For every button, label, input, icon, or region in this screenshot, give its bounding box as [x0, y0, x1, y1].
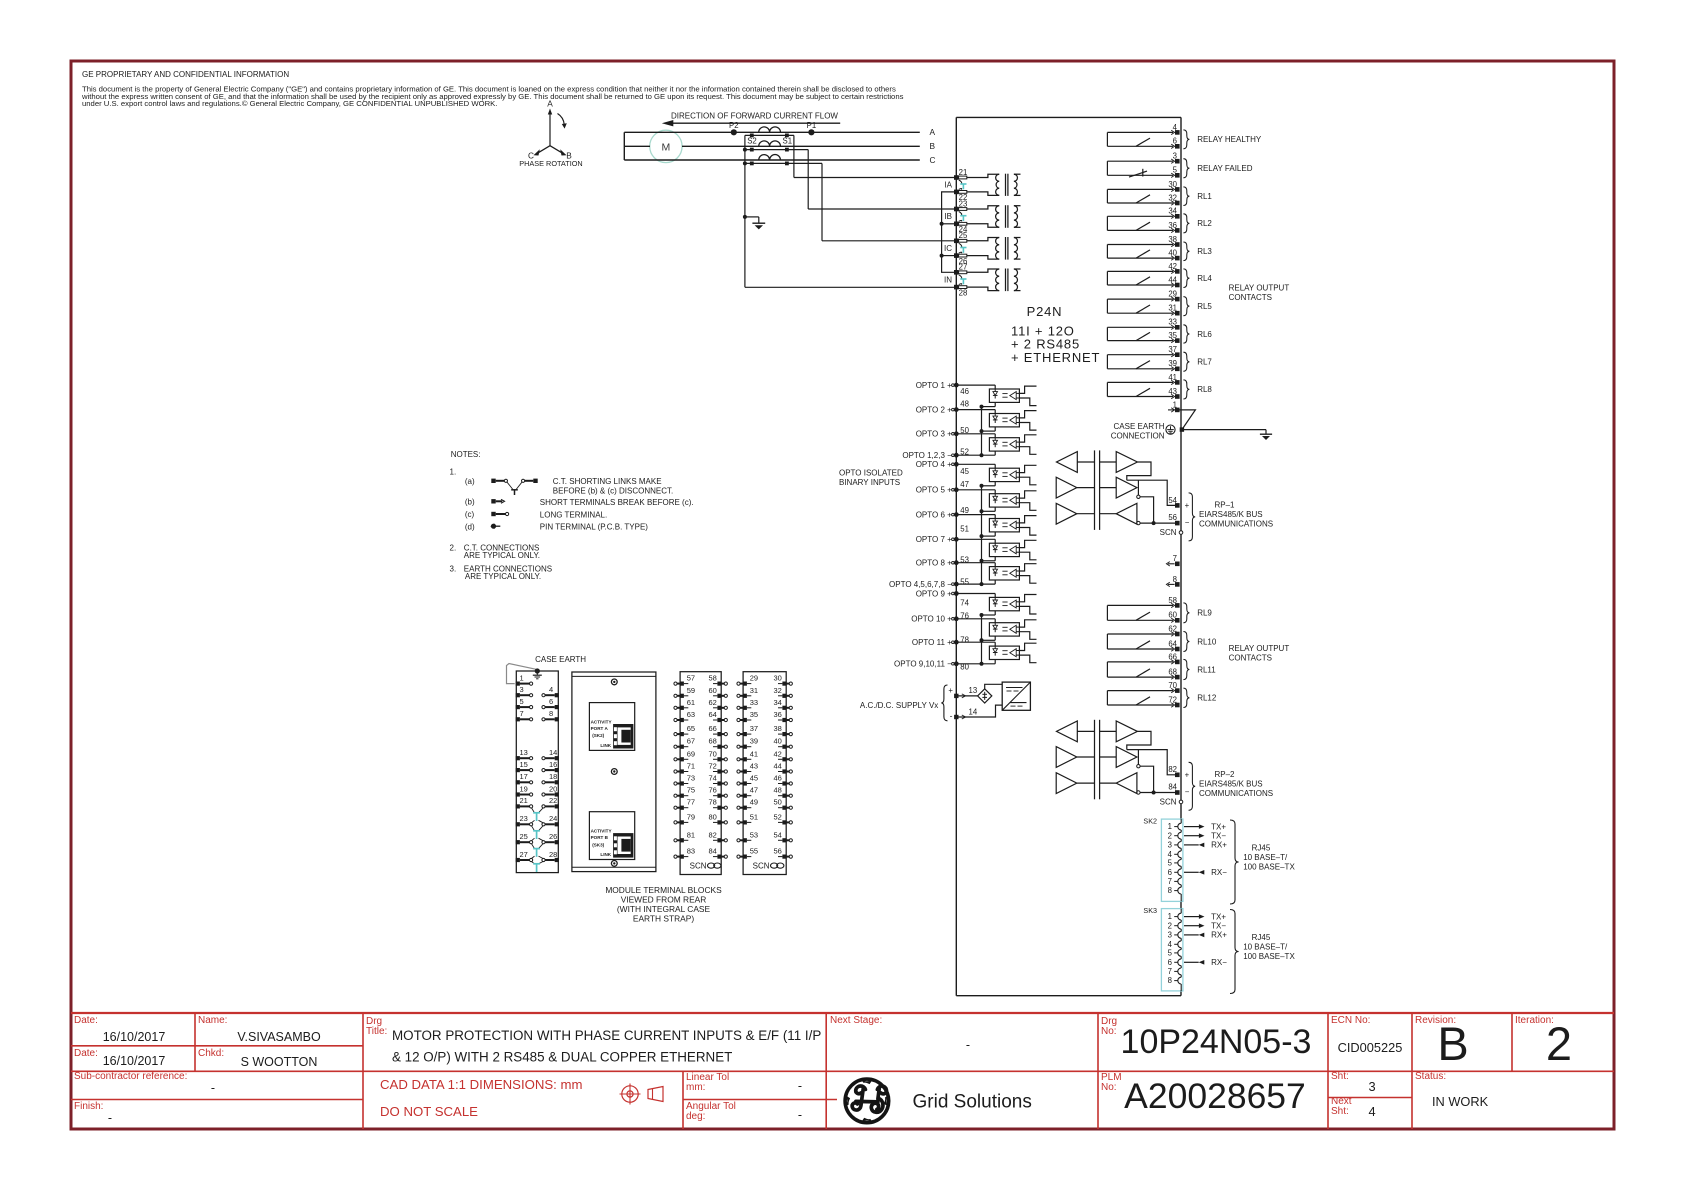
terminal 28 [954, 285, 959, 290]
svg-text:Date:: Date: [74, 1015, 98, 1026]
svg-text:68: 68 [709, 737, 717, 746]
svg-text:IB: IB [944, 212, 952, 221]
svg-text:Finish:: Finish: [74, 1101, 103, 1112]
bridge rectifier [978, 689, 992, 703]
wire opto 78 common stub [994, 660, 996, 664]
svg-text:22: 22 [549, 796, 557, 805]
svg-text:21: 21 [959, 168, 968, 177]
svg-text:RX−: RX− [1211, 958, 1227, 967]
svg-text:(d): (d) [465, 522, 475, 531]
wire opto common 80 [956, 663, 995, 665]
svg-text:63: 63 [687, 710, 695, 719]
wire opto common bus [981, 615, 983, 664]
svg-text:39: 39 [750, 737, 758, 746]
svg-text:Chkd:: Chkd: [198, 1048, 224, 1059]
svg-text:RL6: RL6 [1197, 330, 1212, 339]
buffer RP–2 receive left [1057, 721, 1078, 742]
svg-text:62: 62 [709, 698, 717, 707]
svg-text:A: A [930, 127, 936, 137]
ground CT star point [758, 217, 760, 223]
CT shorting link IN [959, 275, 962, 279]
svg-text:49: 49 [750, 798, 758, 807]
svg-text:B: B [1437, 1017, 1468, 1070]
opto-isolator OPTO 7 [989, 543, 1019, 556]
brace AC/DC supply [941, 685, 947, 721]
svg-text:OPTO 1,2,3 −: OPTO 1,2,3 − [902, 451, 952, 460]
SK3 pin 2 body line [1180, 920, 1182, 922]
svg-text:70: 70 [709, 749, 717, 758]
motor M [650, 130, 682, 162]
wire RP–2 to - terminal [1140, 792, 1175, 794]
projection symbol [622, 1086, 638, 1102]
svg-text:51: 51 [750, 812, 758, 821]
svg-text:Date:: Date: [74, 1048, 98, 1059]
relay contact RL2 [1107, 215, 1173, 217]
title block grid [71, 1012, 1614, 1014]
svg-text:ECN No:: ECN No: [1331, 1015, 1370, 1026]
wire opto 51 common stub [994, 557, 996, 561]
brace RJ45 SK3 [1230, 910, 1239, 994]
svg-text:IN WORK: IN WORK [1432, 1094, 1489, 1109]
svg-text:IA: IA [944, 180, 952, 189]
buffer RP–2 receiver right [1116, 773, 1137, 794]
junction CT common earth tap [743, 215, 747, 219]
svg-text:46: 46 [774, 774, 782, 783]
svg-text:EIARS485/K BUS: EIARS485/K BUS [1199, 510, 1263, 519]
svg-text:3: 3 [1168, 841, 1172, 850]
svg-text:35: 35 [750, 710, 758, 719]
wire CT A S1 to relay [793, 135, 795, 177]
svg-text:37: 37 [750, 724, 758, 733]
relay contact RL5 [1107, 298, 1173, 300]
CT shorting link IA [959, 180, 962, 184]
svg-text:21: 21 [520, 796, 528, 805]
svg-text:64: 64 [709, 710, 717, 719]
svg-text:C: C [930, 155, 936, 165]
svg-text:DO NOT SCALE: DO NOT SCALE [380, 1104, 478, 1119]
svg-text:16/10/2017: 16/10/2017 [103, 1030, 166, 1044]
svg-text:No:: No: [1101, 1026, 1117, 1037]
relay contact RL8 [1107, 381, 1173, 383]
svg-text:55: 55 [750, 847, 758, 856]
wire opto 50 outputs [1019, 435, 1036, 442]
terminal 26 [954, 253, 959, 258]
ethernet port PORT A [589, 703, 634, 751]
svg-text:Sub-contractor reference:: Sub-contractor reference: [74, 1071, 187, 1082]
wire opto 46 common stub [994, 402, 996, 406]
svg-text:7: 7 [1168, 877, 1172, 886]
svg-text:-: - [211, 1081, 215, 1095]
brace RL4 [1183, 269, 1189, 288]
svg-text:RX+: RX+ [1211, 841, 1227, 850]
svg-text:59: 59 [687, 686, 695, 695]
svg-text:24: 24 [549, 814, 557, 823]
buffer RP–1 receive left [1057, 452, 1078, 473]
SK2 pin 7 body line [1180, 876, 1182, 878]
terminal block 4 body [743, 672, 786, 875]
svg-text:74: 74 [960, 598, 969, 607]
svg-text:IC: IC [944, 244, 952, 253]
opto-isolator OPTO 8 [989, 567, 1019, 580]
wire opto 53 outputs [1019, 564, 1036, 571]
svg-text:OPTO 3 +: OPTO 3 + [916, 430, 952, 439]
svg-text:10 BASE–T/: 10 BASE–T/ [1243, 943, 1288, 952]
svg-text:B: B [930, 141, 936, 151]
svg-text:S1: S1 [783, 137, 793, 146]
GE monogram [845, 1079, 889, 1123]
svg-text:CONNECTION: CONNECTION [1111, 431, 1165, 440]
svg-text:47: 47 [750, 786, 758, 795]
svg-text:4: 4 [549, 685, 553, 694]
svg-text:-: - [798, 1108, 802, 1122]
svg-text:RL3: RL3 [1197, 247, 1212, 256]
svg-text:COMMUNICATIONS: COMMUNICATIONS [1199, 520, 1273, 529]
ground case earth [1265, 430, 1267, 434]
case earth symbol [1166, 425, 1175, 434]
svg-text:RL11: RL11 [1197, 665, 1216, 674]
CT phase A terminal S2 [750, 134, 754, 138]
svg-text:-: - [108, 1111, 112, 1125]
brace RL11 [1183, 659, 1189, 679]
svg-text:OPTO 7 +: OPTO 7 + [916, 535, 952, 544]
wire opto 45 common stub [994, 482, 996, 486]
wire phase B [624, 145, 650, 147]
wire RP–1 driver jog [1127, 462, 1151, 480]
svg-text:7: 7 [520, 709, 524, 718]
svg-text:OPTO 4,5,6,7,8 −: OPTO 4,5,6,7,8 − [889, 580, 952, 589]
svg-text:GE PROPRIETARY AND CONFIDENTIA: GE PROPRIETARY AND CONFIDENTIAL INFORMAT… [82, 70, 289, 79]
svg-text:-: - [966, 1038, 970, 1052]
svg-text:+: + [948, 686, 953, 695]
svg-text:74: 74 [709, 774, 717, 783]
svg-text:23: 23 [959, 199, 968, 208]
svg-text:LONG TERMINAL.: LONG TERMINAL. [540, 510, 607, 519]
svg-text:3: 3 [1368, 1079, 1375, 1094]
wire RP–1 to + terminal [1127, 480, 1175, 505]
wire phase A [624, 131, 920, 133]
svg-text:4: 4 [1368, 1104, 1375, 1119]
svg-text:P1: P1 [807, 121, 817, 130]
svg-text:Name:: Name: [198, 1015, 227, 1026]
terminal block 3 body [680, 672, 721, 875]
SK3 signal RX+ [1184, 934, 1199, 936]
input transformer IN [967, 269, 999, 272]
svg-text:(c): (c) [465, 510, 475, 519]
svg-text:OPTO 11 +: OPTO 11 + [912, 638, 952, 647]
CT shorting link IC [959, 243, 962, 247]
svg-text:(b): (b) [465, 498, 475, 507]
svg-text:Next Stage:: Next Stage: [830, 1015, 882, 1026]
brace RL10 [1183, 632, 1189, 652]
svg-text:under U.S. export control laws: under U.S. export control laws and regul… [82, 99, 497, 108]
svg-text:RX−: RX− [1211, 868, 1227, 877]
svg-text:69: 69 [687, 749, 695, 758]
svg-text:TX+: TX+ [1211, 912, 1226, 921]
opto-isolator OPTO 2 [989, 414, 1019, 427]
SK2 signal RX− [1184, 871, 1199, 873]
svg-text:S WOOTTON: S WOOTTON [241, 1055, 318, 1069]
CT phase C winding [759, 155, 781, 160]
opto-isolator OPTO 11 [989, 646, 1019, 659]
wire opto 78 outputs [1019, 643, 1036, 650]
svg-text:+: + [1185, 501, 1190, 510]
relay contact RELAY_HEALTHY [1107, 131, 1173, 133]
svg-text:EARTH STRAP): EARTH STRAP) [633, 913, 694, 923]
opto-isolator OPTO 3 [989, 438, 1019, 451]
wire RP–1 receiver link [1137, 480, 1139, 495]
wire CT return bus [942, 192, 957, 272]
buffer RP–1 drive left upper [1056, 477, 1077, 498]
wire opto 74 input [956, 593, 995, 595]
svg-text:Sht:: Sht: [1331, 1071, 1349, 1082]
svg-text:26: 26 [549, 832, 557, 841]
buffer RP–2 driver right upper [1116, 721, 1137, 742]
svg-text:77: 77 [687, 798, 695, 807]
svg-text:Sht:: Sht: [1331, 1106, 1349, 1117]
svg-text:33: 33 [750, 698, 758, 707]
svg-text:2: 2 [1546, 1017, 1572, 1070]
svg-text:29: 29 [750, 674, 758, 683]
svg-text:SCN: SCN [753, 861, 770, 870]
svg-text:32: 32 [774, 686, 782, 695]
block1 CT shorting link 3 [532, 844, 535, 849]
svg-text:8: 8 [1168, 886, 1172, 895]
wire IN return [745, 286, 956, 288]
svg-text:17: 17 [520, 772, 528, 781]
wire opto 47 outputs [1019, 491, 1036, 498]
svg-text:52: 52 [774, 812, 782, 821]
svg-text:10 BASE–T/: 10 BASE–T/ [1243, 853, 1288, 862]
wire rectifier to PSU [985, 684, 1003, 689]
svg-text:48: 48 [960, 400, 969, 409]
SK3 pin 3 body line [1180, 929, 1182, 931]
arrow direction of forward current flow [665, 122, 840, 124]
svg-text:27: 27 [520, 850, 528, 859]
wire opto 76 input [956, 618, 995, 620]
wire opto 76 outputs [1019, 620, 1036, 627]
SK2 pin 2 body line [1180, 830, 1182, 832]
wire opto 53 input [956, 562, 995, 564]
CT phase A secondary line [745, 134, 794, 136]
SK2 signal TX− [1184, 835, 1200, 837]
svg-text:51: 51 [960, 525, 969, 534]
wire opto 46 input [956, 384, 995, 386]
svg-text:28: 28 [549, 850, 557, 859]
svg-text:−: − [1185, 518, 1190, 527]
svg-text:57: 57 [687, 674, 695, 683]
svg-text:53: 53 [750, 830, 758, 839]
svg-text:OPTO 9 +: OPTO 9 + [916, 589, 952, 598]
svg-text:61: 61 [687, 698, 695, 707]
brace RP–2 [1189, 762, 1196, 810]
svg-text:OPTO 1 +: OPTO 1 + [916, 381, 952, 390]
svg-text:6: 6 [1168, 958, 1172, 967]
svg-text:71: 71 [687, 762, 695, 771]
svg-text:44: 44 [774, 762, 782, 771]
brace RL9 [1183, 603, 1189, 623]
svg-text:30: 30 [774, 674, 782, 683]
svg-text:M: M [662, 142, 671, 154]
relay contact RL1 [1107, 188, 1173, 190]
brace RL1 [1183, 187, 1189, 206]
brace RL8 [1183, 380, 1189, 399]
svg-text:45: 45 [960, 467, 969, 476]
svg-text:58: 58 [709, 674, 717, 683]
svg-text:78: 78 [960, 635, 969, 644]
svg-text:SCN: SCN [690, 861, 707, 870]
SK2 signal RX+ [1184, 844, 1199, 846]
svg-text:67: 67 [687, 737, 695, 746]
svg-text:TX−: TX− [1211, 922, 1226, 931]
junction bus 26 [940, 254, 944, 258]
CT phase C terminal S1 [785, 162, 789, 166]
wire opto 45 input [956, 463, 995, 465]
relay contact RL10 [1107, 633, 1173, 635]
svg-text:2: 2 [1168, 921, 1172, 930]
svg-text:-: - [798, 1079, 802, 1093]
SK3 pin 5 body line [1180, 948, 1182, 950]
svg-text:RL9: RL9 [1197, 609, 1212, 618]
CT phase C terminal S2 [750, 162, 754, 166]
svg-text:81: 81 [687, 830, 695, 839]
opto-isolator OPTO 4 [989, 468, 1019, 481]
wire opto 51 input [956, 538, 995, 540]
wire opto 74 outputs [1019, 595, 1036, 602]
wire RP–1 to - terminal [1140, 522, 1175, 524]
svg-text:A.C./D.C. SUPPLY Vx: A.C./D.C. SUPPLY Vx [860, 701, 938, 710]
wire opto common 55 [956, 583, 995, 585]
SK3 signal TX− [1184, 925, 1200, 927]
svg-text:& 12 O/P) WITH 2 RS485 & DUAL: & 12 O/P) WITH 2 RS485 & DUAL COPPER ETH… [392, 1050, 732, 1065]
svg-text:RL8: RL8 [1197, 385, 1212, 394]
svg-text:TX+: TX+ [1211, 822, 1226, 831]
ethernet port PORT B [589, 812, 634, 860]
svg-text:79: 79 [687, 812, 695, 821]
svg-text:43: 43 [750, 762, 758, 771]
svg-text:Status:: Status: [1415, 1071, 1446, 1082]
svg-text:SCN: SCN [1160, 528, 1177, 537]
buffer RP–1 receiver right [1116, 503, 1137, 524]
wire terminal 1 to case earth [1177, 410, 1195, 430]
buffer RP–2 drive left lower [1056, 773, 1077, 794]
svg-text:7: 7 [1168, 967, 1172, 976]
SK3 pin 1 body line [1180, 909, 1182, 914]
svg-text:18: 18 [549, 772, 557, 781]
svg-text:14: 14 [969, 707, 978, 716]
wire opto 46 outputs [1019, 386, 1036, 393]
wire opto 47 input [956, 489, 995, 491]
svg-text:RJ45: RJ45 [1252, 933, 1271, 942]
svg-text:RX+: RX+ [1211, 931, 1227, 940]
svg-text:1: 1 [520, 673, 524, 682]
svg-text:LINK: LINK [600, 852, 611, 857]
svg-text:BEFORE (b) & (c) DISCONNECT.: BEFORE (b) & (c) DISCONNECT. [553, 486, 673, 495]
svg-text:41: 41 [750, 749, 758, 758]
wire opto 48 outputs [1019, 411, 1036, 418]
svg-text:+ ETHERNET: + ETHERNET [1011, 350, 1100, 365]
svg-text:6: 6 [1168, 868, 1172, 877]
SK2 pin 3 body line [1180, 839, 1182, 841]
svg-text:2: 2 [1168, 831, 1172, 840]
svg-text:V.SIVASAMBO: V.SIVASAMBO [237, 1030, 321, 1044]
brace RL2 [1183, 214, 1189, 233]
svg-text:RELAY OUTPUT: RELAY OUTPUT [1229, 284, 1290, 293]
RS485 isolation barrier RP–2 [1094, 720, 1096, 800]
wire opto 51 outputs [1019, 540, 1036, 547]
wire opto common bus [981, 407, 983, 456]
svg-text:3: 3 [520, 685, 524, 694]
CT phase B secondary line [745, 149, 808, 151]
opto-isolator OPTO 6 [989, 519, 1019, 532]
wire opto 48 input [956, 409, 995, 411]
svg-text:deg:: deg: [686, 1111, 705, 1122]
terminal block 1 body [516, 671, 558, 873]
svg-text:TX−: TX− [1211, 832, 1226, 841]
svg-text:CONTACTS: CONTACTS [1229, 654, 1272, 663]
svg-text:72: 72 [709, 762, 717, 771]
block1 CT shorting link 1 [532, 808, 535, 813]
block1 CT shorting link 2 [532, 826, 535, 831]
svg-text:CASE EARTH: CASE EARTH [1114, 422, 1165, 431]
terminal 22 [954, 190, 959, 195]
wire RP–2 driver jog [1127, 731, 1151, 749]
svg-text:RL5: RL5 [1197, 302, 1212, 311]
svg-text:−: − [1185, 788, 1190, 797]
svg-text:LINK: LINK [600, 743, 611, 748]
svg-text:RP–1: RP–1 [1214, 501, 1235, 510]
svg-text:ACTIVITY: ACTIVITY [591, 829, 612, 834]
svg-text:47: 47 [960, 480, 969, 489]
comms module body [572, 672, 656, 872]
svg-text:100 BASE–TX: 100 BASE–TX [1243, 863, 1295, 872]
opto-isolator OPTO 9 [989, 597, 1019, 610]
svg-text:49: 49 [960, 506, 969, 515]
CT phase B winding [759, 141, 781, 146]
svg-text:27: 27 [959, 263, 968, 272]
junction CT common C [743, 161, 747, 165]
CT phase A winding [759, 127, 781, 132]
svg-text:54: 54 [774, 830, 782, 839]
svg-text:NOTES:: NOTES: [451, 450, 481, 459]
wire opto 48 common stub [994, 427, 996, 431]
svg-text:40: 40 [774, 737, 782, 746]
svg-text:(SK2): (SK2) [592, 733, 604, 738]
svg-text:75: 75 [687, 786, 695, 795]
connector SK3 body [1161, 909, 1183, 991]
brace RL3 [1183, 242, 1189, 261]
wire CT C S1 to relay [821, 163, 823, 240]
svg-text:CASE EARTH: CASE EARTH [535, 655, 586, 664]
wire opto common 52 [956, 454, 995, 456]
svg-text:25: 25 [520, 832, 528, 841]
svg-text:COMMUNICATIONS: COMMUNICATIONS [1199, 789, 1273, 798]
module screw [611, 679, 617, 685]
svg-text:-: - [950, 711, 953, 721]
wire opto 49 outputs [1019, 516, 1036, 523]
wire case earth to ground [1182, 429, 1266, 431]
wire opto 50 input [956, 433, 995, 435]
SK3 signal TX+ [1184, 916, 1200, 918]
svg-text:6: 6 [549, 697, 553, 706]
svg-text:5: 5 [1168, 859, 1173, 868]
svg-text:46: 46 [960, 387, 969, 396]
svg-text:OPTO 6 +: OPTO 6 + [916, 510, 952, 519]
module screw [611, 769, 617, 775]
brace RELAY_HEALTHY [1183, 130, 1189, 149]
svg-text:MODULE TERMINAL BLOCKS: MODULE TERMINAL BLOCKS [605, 885, 722, 895]
svg-text:56: 56 [774, 847, 782, 856]
svg-text:34: 34 [774, 698, 782, 707]
